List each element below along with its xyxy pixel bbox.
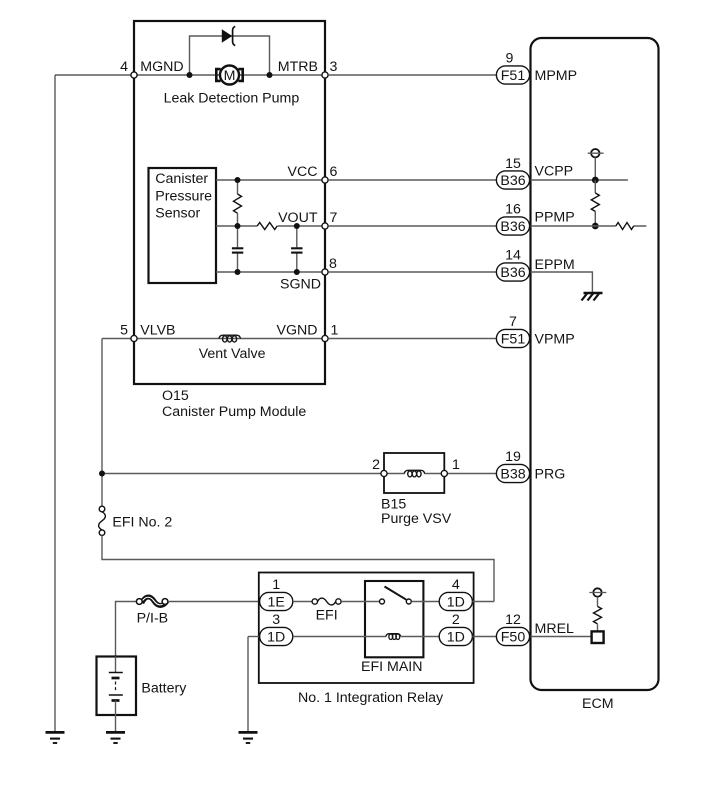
svg-text:ECM: ECM	[582, 696, 614, 712]
svg-text:B36: B36	[500, 173, 525, 189]
label EFI MAIN	[361, 659, 422, 675]
fuse EFI No. 2	[99, 506, 106, 535]
svg-text:9: 9	[506, 51, 514, 67]
svg-text:1: 1	[272, 577, 280, 593]
terminal VSV pin 2	[381, 470, 387, 476]
terminal pin 4 MGND	[131, 72, 137, 78]
pin number 5	[120, 323, 128, 339]
wire pin 3 row	[248, 636, 260, 638]
terminal pin 1 VGND	[322, 335, 328, 341]
wire switch to pin 4	[411, 601, 439, 603]
label EFI No. 2	[112, 515, 172, 531]
label SGND	[280, 277, 321, 293]
pin number 15	[505, 156, 521, 172]
box O15 Canister Pump Module	[134, 21, 325, 384]
svg-text:PRG: PRG	[535, 466, 566, 482]
wire VOUT row	[216, 225, 325, 227]
pin number 6	[330, 164, 338, 180]
svg-text:7: 7	[330, 210, 338, 226]
resistor R3 internal vertical	[591, 180, 599, 226]
svg-text:MGND: MGND	[140, 59, 183, 75]
label PRG	[535, 466, 566, 482]
wire diode bypass loop	[190, 36, 270, 75]
box ECM	[531, 38, 659, 690]
svg-text:Canister Pump Module: Canister Pump Module	[162, 404, 306, 420]
terminal pin 7 VOUT	[322, 223, 328, 229]
svg-text:VPMP: VPMP	[535, 332, 575, 348]
label P/I-B	[137, 611, 169, 627]
svg-text:16: 16	[505, 202, 521, 218]
resistor R1 horizontal	[257, 223, 277, 230]
capacitor C1	[232, 226, 243, 272]
svg-text:EPPM: EPPM	[535, 257, 575, 273]
svg-text:2: 2	[452, 612, 460, 628]
svg-text:19: 19	[505, 449, 521, 465]
svg-text:Vent Valve: Vent Valve	[199, 346, 266, 362]
wire VGND to ECM	[328, 338, 496, 340]
svg-text:B38: B38	[500, 466, 525, 482]
svg-text:15: 15	[505, 156, 521, 172]
wire PPMP internal	[531, 225, 647, 227]
label No. 1 Integration Relay	[298, 690, 444, 706]
svg-text:VCPP: VCPP	[535, 164, 574, 180]
svg-text:5: 5	[120, 323, 128, 339]
terminal pin 6 VCC	[322, 177, 328, 183]
wire pin3 ground drop	[247, 637, 249, 733]
connector oval B38 pin 19	[496, 464, 529, 482]
wire pin 3 to coil	[293, 636, 386, 638]
resistor R4 internal horizontal	[616, 223, 634, 230]
wire SGND row	[216, 271, 325, 273]
junction dot C	[235, 177, 241, 183]
junction dot PPMP	[592, 223, 599, 230]
pin number 1	[331, 323, 339, 339]
wire PRG row	[102, 473, 497, 475]
wire MGND row left	[55, 74, 134, 76]
resistor R2 vertical	[234, 180, 242, 226]
label MTRB	[278, 59, 318, 75]
capacitor C2	[291, 226, 302, 272]
svg-text:1D: 1D	[447, 629, 465, 645]
pin number 16	[505, 202, 521, 218]
pin number 2	[452, 612, 460, 628]
svg-text:Pressure: Pressure	[155, 188, 212, 204]
svg-text:EFI No. 2: EFI No. 2	[112, 515, 172, 531]
power symbol MREL	[589, 588, 606, 606]
connector oval 1D pin 2	[439, 627, 472, 645]
wire vent valve row	[134, 338, 325, 340]
svg-text:14: 14	[505, 248, 521, 264]
junction dot G	[294, 269, 300, 275]
inductor purge VSV coil	[404, 470, 424, 477]
svg-text:7: 7	[509, 314, 517, 330]
fuse EFI	[312, 598, 341, 605]
wire left ground drop	[54, 75, 56, 732]
wire VSV internal	[387, 473, 441, 475]
svg-text:PPMP: PPMP	[535, 210, 575, 226]
pin number 4	[120, 59, 128, 75]
svg-text:3: 3	[272, 612, 280, 628]
pin number 12	[505, 612, 521, 628]
pin number 7	[330, 210, 338, 226]
label Vent Valve	[199, 346, 266, 362]
svg-text:MTRB: MTRB	[278, 59, 318, 75]
wire pin 2 to F50	[472, 636, 496, 638]
wire SGND to ECM	[328, 271, 496, 273]
junction dot E	[294, 223, 300, 229]
connector oval F51 pin 9	[496, 66, 529, 84]
pin number 3	[330, 59, 338, 75]
svg-text:MREL: MREL	[535, 621, 575, 637]
pin number 9	[506, 51, 514, 67]
pin number 3	[272, 612, 280, 628]
label Canister Pressure Sensor	[155, 171, 212, 221]
connector oval 1D pin 3	[260, 627, 293, 645]
junction dot VCPP	[592, 177, 599, 184]
wire VCPP internal	[531, 179, 628, 181]
wire coil to pin 2	[401, 636, 439, 638]
svg-text:VGND: VGND	[277, 323, 318, 339]
svg-text:EFI MAIN: EFI MAIN	[361, 659, 422, 675]
wire pin 4 to riser	[472, 601, 494, 603]
wire VOUT to ECM	[328, 225, 496, 227]
pin number 8	[329, 256, 337, 272]
wire VCC to ECM	[328, 179, 496, 181]
svg-text:Canister: Canister	[155, 171, 208, 187]
svg-text:B36: B36	[500, 219, 525, 235]
wire MREL internal	[531, 636, 592, 638]
label O15	[162, 388, 189, 404]
label Purge VSV	[381, 511, 452, 527]
svg-text:F51: F51	[501, 331, 526, 347]
svg-text:8: 8	[329, 256, 337, 272]
box No. 1 Integration Relay	[259, 573, 474, 684]
chassis ground EPPM	[582, 293, 603, 301]
svg-text:Battery: Battery	[141, 681, 187, 697]
inductor vent valve coil	[219, 335, 241, 342]
label Leak Detection Pump	[164, 90, 300, 106]
svg-text:B36: B36	[500, 265, 525, 281]
svg-text:2: 2	[372, 457, 380, 473]
label Battery	[141, 681, 187, 697]
resistor R5 MREL vertical	[594, 606, 602, 631]
label EFI	[316, 608, 338, 624]
power symbol VCPP	[588, 149, 604, 180]
motor M1	[216, 66, 242, 85]
connector oval F50 pin 12	[496, 627, 529, 645]
svg-text:4: 4	[452, 577, 460, 593]
label MPMP	[535, 68, 578, 84]
svg-text:12: 12	[505, 612, 521, 628]
label VCPP	[535, 164, 574, 180]
label EPPM	[535, 257, 575, 273]
terminal pin 5 VLVB	[131, 335, 137, 341]
ground G3 relay	[239, 732, 258, 743]
svg-text:VOUT: VOUT	[278, 210, 318, 226]
connector oval B36 pin 15	[496, 171, 529, 189]
svg-text:3: 3	[330, 59, 338, 75]
svg-text:1: 1	[452, 457, 460, 473]
svg-text:1D: 1D	[267, 629, 285, 645]
svg-text:Purge VSV: Purge VSV	[381, 511, 452, 527]
svg-text:1E: 1E	[268, 594, 285, 610]
connector oval 1D pin 4	[439, 592, 472, 610]
wire battery to P/I-B	[116, 602, 137, 657]
wire VLVB row	[102, 338, 134, 340]
svg-text:No. 1 Integration Relay: No. 1 Integration Relay	[298, 690, 444, 706]
svg-text:SGND: SGND	[280, 277, 321, 293]
svg-text:F50: F50	[501, 629, 526, 645]
junction dot F	[235, 269, 241, 275]
terminator square MREL	[592, 631, 604, 643]
junction dot B	[267, 72, 273, 78]
wire motor row	[134, 74, 325, 76]
wire 1E to EFI fuse	[293, 601, 312, 603]
svg-text:M: M	[224, 68, 236, 84]
connector oval F51 pin 7	[496, 329, 529, 347]
svg-text:P/I-B: P/I-B	[137, 611, 169, 627]
label VGND	[277, 323, 318, 339]
wire VLVB drop	[101, 339, 103, 507]
label VCC	[288, 164, 318, 180]
diode D1	[222, 26, 235, 45]
svg-text:VLVB: VLVB	[140, 323, 175, 339]
pin number 19	[505, 449, 521, 465]
battery	[97, 657, 137, 733]
pin number 1	[452, 457, 460, 473]
label VLVB	[140, 323, 175, 339]
pin number 1	[272, 577, 280, 593]
label VOUT	[278, 210, 318, 226]
terminal pin 8 SGND	[322, 269, 328, 275]
fusible link P/I-B	[136, 597, 168, 605]
svg-text:Sensor: Sensor	[155, 205, 200, 221]
relay switch	[380, 587, 412, 605]
svg-text:MPMP: MPMP	[535, 68, 578, 84]
wire VCC row	[216, 179, 325, 181]
box B15 Purge VSV	[384, 453, 444, 493]
box Canister Pressure Sensor	[149, 168, 217, 283]
inductor EFI MAIN coil	[386, 634, 401, 640]
ground G2 battery	[106, 732, 125, 743]
svg-text:VCC: VCC	[288, 164, 318, 180]
label MREL	[535, 621, 575, 637]
connector oval B36 pin 14	[496, 263, 529, 281]
junction dot D	[235, 223, 241, 229]
pin number 7	[509, 314, 517, 330]
box EFI MAIN inner	[365, 581, 423, 657]
wire EFI fuse to switch box	[341, 601, 379, 603]
terminal VSV pin 1	[441, 470, 447, 476]
label Canister Pump Module	[162, 404, 306, 420]
svg-text:1: 1	[331, 323, 339, 339]
terminal pin 3 MTRB	[322, 72, 328, 78]
junction dot A	[187, 72, 193, 78]
svg-text:F51: F51	[501, 68, 526, 84]
pin number 2	[372, 457, 380, 473]
svg-text:4: 4	[120, 59, 128, 75]
svg-text:1D: 1D	[447, 594, 465, 610]
pin number 4	[452, 577, 460, 593]
label ECM	[582, 696, 614, 712]
wire EPPM internal	[531, 272, 593, 292]
wire fuse to link row	[102, 536, 494, 602]
svg-text:EFI: EFI	[316, 608, 338, 624]
label PPMP	[535, 210, 575, 226]
junction dot H	[99, 471, 105, 477]
ground G1	[46, 732, 65, 743]
label B15	[381, 497, 406, 513]
label VPMP	[535, 332, 575, 348]
svg-text:6: 6	[330, 164, 338, 180]
wire P/I-B to relay	[168, 601, 260, 603]
svg-text:Leak Detection Pump: Leak Detection Pump	[164, 90, 300, 106]
svg-text:O15: O15	[162, 388, 189, 404]
connector oval 1E pin 1	[260, 592, 293, 610]
wire MTRB to ECM	[328, 74, 496, 76]
pin number 14	[505, 248, 521, 264]
connector oval B36 pin 16	[496, 217, 529, 235]
label MGND	[140, 59, 183, 75]
